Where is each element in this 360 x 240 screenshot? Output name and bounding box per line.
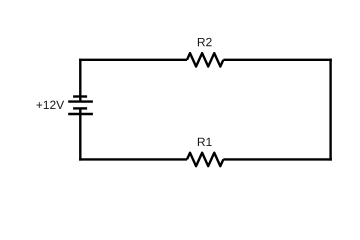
battery V1 short plate (lower) bbox=[73, 107, 87, 109]
battery V1 short plate (top) bbox=[73, 95, 87, 97]
resistor R1 bbox=[187, 153, 223, 166]
wire bottom-left segment bbox=[79, 158, 187, 160]
resistor R2 bbox=[187, 53, 223, 66]
wire top-right segment bbox=[223, 59, 331, 61]
label R2 bbox=[198, 38, 212, 46]
label R1 bbox=[198, 138, 212, 146]
wire bottom-right segment bbox=[223, 158, 331, 160]
battery V1 long plate (bottom) bbox=[68, 113, 93, 115]
wire left vertical lower (from battery) bbox=[79, 108, 81, 160]
label +12V bbox=[36, 101, 64, 109]
wire left vertical upper (to battery) bbox=[79, 59, 81, 102]
wire right vertical bbox=[329, 59, 331, 161]
wire top-left segment bbox=[79, 59, 187, 61]
battery V1 long plate (upper) bbox=[68, 100, 93, 102]
